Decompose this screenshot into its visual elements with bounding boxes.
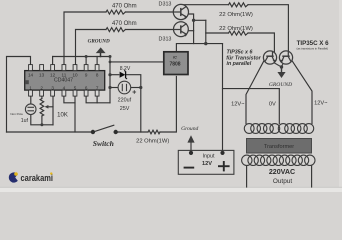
battery plus symbol (218, 161, 230, 171)
wire: 470 Ohm rail 2 (76, 30, 107, 65)
pot wiper arrowhead (45, 105, 49, 109)
wire: pin14 loop left side (7, 57, 31, 133)
svg-text:carakami: carakami (21, 173, 54, 183)
svg-text:Ground: Ground (181, 126, 198, 132)
capacitor 220uf circle (118, 81, 131, 94)
svg-text:22 Ohm(1W): 22 Ohm(1W) (219, 26, 253, 32)
wire: TIP right collector diagonal (292, 61, 312, 124)
svg-text:220VAC: 220VAC (269, 168, 295, 176)
svg-text:5: 5 (74, 85, 77, 90)
svg-text:(as transistors in Parallel): (as transistors in Parallel) (297, 46, 329, 50)
zener diode 8.2V (120, 71, 128, 79)
regulator 7808 (164, 52, 188, 75)
wire: pin2 to pot (41, 96, 43, 98)
svg-text:GROUND: GROUND (88, 39, 110, 45)
transformer primary coil left (244, 124, 279, 134)
wire: TIP emitters join (274, 63, 283, 67)
svg-text:3: 3 (51, 85, 54, 90)
wire: bottom rail to 7808 (160, 76, 176, 132)
wire: pot wiper arrow (48, 106, 54, 108)
wire: zener branch (110, 74, 119, 76)
svg-text:Non Pola: Non Pola (10, 112, 23, 116)
svg-text:7: 7 (96, 85, 99, 90)
capacitor 1uf circle (25, 104, 36, 115)
svg-text:D313: D313 (159, 2, 172, 8)
svg-text:IC: IC (173, 56, 177, 60)
carakami logo (9, 172, 53, 183)
transistor TIP35C right (279, 51, 292, 64)
svg-text:220uf: 220uf (118, 97, 132, 103)
wire: pin3 riser down (52, 96, 54, 125)
svg-text:in parallel: in parallel (227, 61, 252, 67)
resistor 470 Ohm 1 (106, 10, 125, 14)
svg-text:14: 14 (28, 72, 34, 77)
svg-text:10: 10 (72, 72, 78, 77)
switch contacts (91, 130, 118, 134)
wire: 470 Ohm rail 1 (64, 12, 106, 65)
IC pin numbers bottom row (29, 85, 99, 90)
wire: rail2 y=33 to left TIP (206, 32, 229, 34)
svg-text:1: 1 (29, 85, 32, 90)
svg-text:22 Ohm(1W): 22 Ohm(1W) (219, 12, 253, 18)
resistor 22 Ohm(1W) upper-2 (229, 31, 249, 35)
svg-text:2: 2 (40, 85, 43, 90)
transformer core box (247, 139, 312, 154)
wire: battery plus riser (222, 44, 224, 153)
IC CD4047 body (25, 71, 105, 91)
junction dots (40, 19, 207, 127)
svg-text:470 Ohm: 470 Ohm (112, 21, 137, 27)
IC pin numbers top row (28, 72, 99, 77)
transistor D313 Q1 (173, 4, 188, 19)
potentiometer 10K zigzag (40, 99, 44, 117)
battery minus symbol (184, 167, 195, 169)
svg-text:Switch: Switch (93, 139, 114, 148)
wire: bottom rail left segment (7, 131, 94, 133)
svg-text:25V: 25V (120, 106, 130, 112)
svg-text:8: 8 (96, 72, 99, 77)
resistor 470 Ohm 2 (106, 28, 125, 32)
svg-text:12V: 12V (202, 161, 212, 167)
wire: pin8 ground stem (96, 57, 98, 65)
wire: TIP left collector diagonal (246, 61, 264, 124)
wire: 7808 top riser and rail y=43.6 (176, 44, 222, 52)
svg-text:13: 13 (39, 72, 45, 77)
note TIP35c x 6 fur Transistor in parallel (226, 50, 261, 68)
transistor D313 Q2 (174, 22, 189, 37)
svg-text:10K: 10K (57, 112, 68, 118)
transformer secondary coil (242, 155, 315, 165)
svg-text:6: 6 (85, 85, 88, 90)
svg-text:Output: Output (273, 178, 292, 185)
wire: pins 6-7 bus extension (86, 96, 110, 103)
svg-text:9: 9 (85, 72, 88, 77)
resistor 22 Ohm(1W) upper-1 (229, 3, 249, 7)
battery box Input 12V (178, 150, 234, 174)
wire: switch lever (93, 125, 114, 132)
ground arrow above IC pin8 (96, 47, 106, 53)
wire: rail1 y=4.7 to right TIP (181, 4, 229, 6)
IC bottom pins (29, 90, 99, 96)
svg-text:0V: 0V (269, 102, 276, 108)
svg-text:470 Ohm: 470 Ohm (112, 4, 137, 10)
wire: 220VAC output left (246, 166, 248, 188)
transistor TIP35C left (263, 51, 276, 64)
wire: pin1 to 1uf cap (30, 96, 32, 104)
svg-text:7808: 7808 (169, 61, 180, 67)
svg-text:CD4047: CD4047 (54, 78, 73, 84)
wire: D313 Q1 emitter path (189, 14, 194, 44)
svg-text:22 Ohm(1W): 22 Ohm(1W) (136, 139, 169, 145)
ground arrow above battery minus (187, 135, 194, 142)
wire: battery minus riser (190, 143, 192, 153)
svg-text:GROUND: GROUND (269, 82, 292, 88)
wire: cap 220uf branch (110, 87, 118, 89)
wire: vertical x=205.8 down to 12V node (205, 20, 207, 43)
svg-text:12V~: 12V~ (314, 101, 328, 107)
transformer primary coil right (278, 124, 313, 134)
wire: 220VAC output right (311, 166, 313, 188)
svg-text:D313: D313 (159, 37, 172, 43)
wire: D313 Q2 emitter (189, 30, 194, 32)
wire: bottom rail right segment (116, 131, 149, 133)
ground arrow under TIP pair (277, 65, 285, 78)
svg-text:1uf: 1uf (21, 118, 29, 124)
resistor 22 Ohm(1W) bottom (148, 130, 160, 134)
wire: rail y=88.6 to transformer left (223, 88, 280, 90)
IC top pins (29, 65, 99, 71)
plus mark at 220uf (133, 90, 137, 94)
svg-text:4: 4 (63, 85, 66, 90)
svg-text:Input: Input (203, 154, 215, 160)
wire: 8.2V rail above IC (52, 57, 54, 65)
svg-text:Transformer: Transformer (264, 144, 294, 150)
wire: transformer centre tap 0V (278, 89, 280, 124)
svg-text:12V~: 12V~ (231, 101, 245, 107)
svg-text:8.2V: 8.2V (120, 66, 131, 72)
wire: pins 4-5 bus with drop (64, 96, 75, 103)
